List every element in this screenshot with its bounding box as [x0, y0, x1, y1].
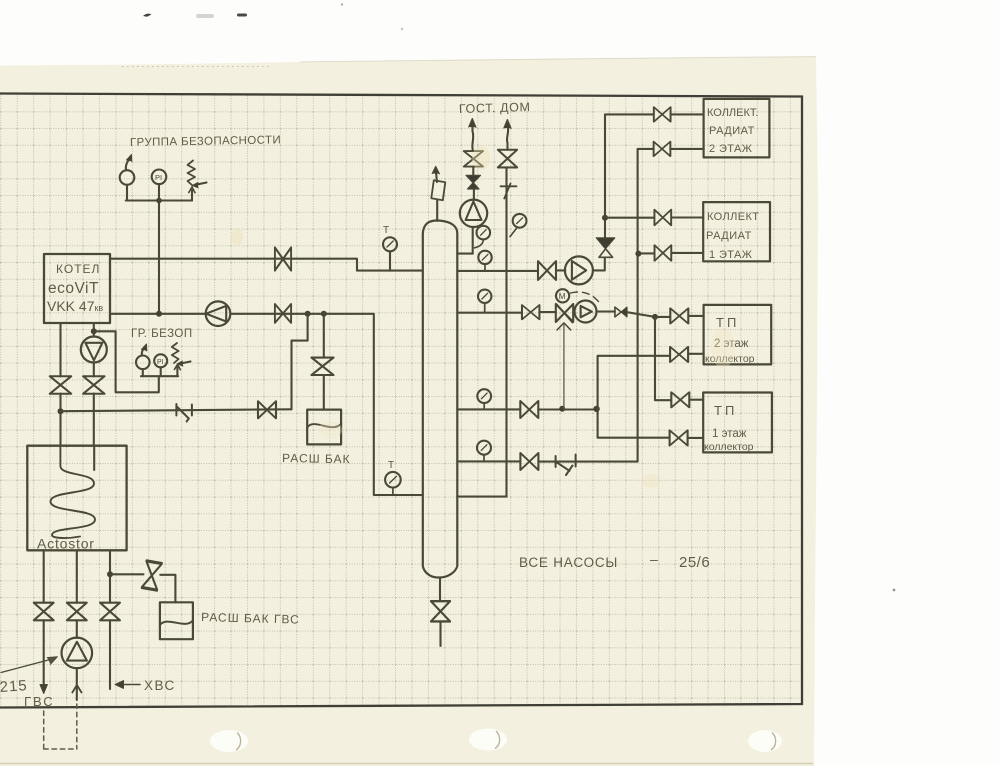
- junction node E: [58, 408, 64, 414]
- drain fitting D2: [556, 455, 576, 476]
- Actostor heating coil: [51, 446, 96, 538]
- radiator collector 1st floor box: [703, 202, 770, 261]
- stain 3: [711, 328, 735, 368]
- valve V24: [670, 430, 688, 445]
- valve V22: [520, 401, 538, 418]
- svg-text:–: –: [650, 551, 658, 567]
- valve V13: [498, 150, 517, 168]
- svg-text:коллектор: коллектор: [704, 441, 754, 453]
- pipe TP1 supply riser: [655, 317, 703, 400]
- svg-text:PI: PI: [155, 173, 162, 182]
- mixing valve M1: [556, 304, 573, 330]
- gauge T1: [383, 237, 397, 270]
- valve V4: [258, 401, 276, 418]
- check valve CH2: [596, 238, 615, 257]
- svg-text:КОТЕЛ: КОТЕЛ: [56, 262, 100, 276]
- leader arrow for 215: [1, 657, 58, 673]
- pipe bypass from node A to return manifold: [292, 314, 308, 410]
- pipe cold water feed: [109, 550, 111, 689]
- svg-text:ТП: ТП: [716, 315, 739, 330]
- margin dot: [893, 589, 896, 592]
- svg-text:25/6: 25/6: [679, 554, 710, 571]
- gauge PI2: [154, 354, 167, 376]
- gauge PI1: [152, 170, 167, 201]
- valve V12: [464, 151, 483, 166]
- svg-text:РАСШ БАК: РАСШ БАК: [282, 451, 351, 466]
- paper sheet: [0, 57, 818, 766]
- radiator supply riser: [605, 114, 704, 237]
- pipe separator to house-supply riser: [457, 253, 472, 255]
- stain 1: [472, 146, 490, 170]
- arrow from house return: [504, 120, 511, 129]
- valve V1: [275, 247, 291, 270]
- pump P1: [206, 301, 231, 326]
- valve V11: [431, 601, 450, 621]
- svg-text:М: М: [559, 292, 566, 301]
- paper bottom shadow: [0, 763, 813, 765]
- valve V21: [671, 392, 689, 407]
- svg-text:ТП: ТП: [714, 403, 737, 418]
- svg-text:РАСШ БАК ГВС: РАСШ БАК ГВС: [201, 610, 300, 627]
- pipe to DHW expansion tank: [110, 574, 175, 602]
- arrow KHVS: [115, 681, 140, 689]
- svg-text:2 ЭТАЖ: 2 ЭТАЖ: [709, 143, 752, 155]
- TP collector 1st floor box: [703, 393, 772, 453]
- junction node B: [321, 311, 327, 317]
- valve V19: [522, 305, 539, 319]
- pump P4: [460, 200, 487, 227]
- gauge below pump P4: [475, 226, 491, 248]
- TP collector 2nd floor box: [704, 305, 772, 365]
- paper top edge line: [300, 57, 816, 62]
- drain fitting D1: [176, 404, 192, 422]
- heating supply pipe right: [457, 257, 605, 271]
- air vent on separator dome: [431, 167, 445, 221]
- TP return riser: [598, 354, 704, 438]
- junction node L: [593, 406, 599, 412]
- check valve CH1: [466, 175, 481, 189]
- valve V15: [654, 107, 671, 122]
- mini safety header: [141, 375, 178, 377]
- hole punch right: [748, 730, 782, 752]
- actuator dashed link: [571, 292, 601, 304]
- scan mark 2: [237, 14, 247, 17]
- paper top edge speckles: [122, 66, 272, 68]
- pump P3: [62, 638, 93, 669]
- pipe boiler supply to separator: [110, 259, 423, 271]
- pump P6: [575, 301, 597, 323]
- pipe radiator supply 1st floor: [605, 216, 703, 218]
- Actostor tank box: [27, 446, 126, 551]
- valve V3: [311, 358, 333, 375]
- junction node H: [602, 215, 608, 221]
- stain 4: [642, 474, 660, 488]
- floor-heating return pipe: [457, 408, 597, 410]
- label radiator 2fl: [707, 107, 758, 155]
- valve V25: [520, 453, 538, 470]
- valve V17: [654, 142, 671, 157]
- pipe expansion tank branch from node B: [323, 314, 325, 410]
- svg-text:ecoViT: ecoViT: [48, 280, 99, 297]
- paper grid: [0, 96, 802, 707]
- svg-text:ГОСТ. ДОМ: ГОСТ. ДОМ: [459, 100, 531, 116]
- pipe DHW recirculation: [76, 550, 78, 700]
- safety valve SV2: [172, 343, 191, 376]
- scan smudge: [196, 14, 214, 18]
- label TP 2fl: [705, 315, 755, 365]
- pump P5: [565, 256, 593, 284]
- Actostor coil return leg: [93, 446, 95, 470]
- separator drain pipe: [439, 578, 442, 647]
- svg-text:1 этаж: 1 этаж: [712, 428, 747, 440]
- valve V16: [654, 210, 671, 226]
- gauge G4: [478, 290, 491, 313]
- pipe TP2 supply: [655, 316, 704, 317]
- svg-text:ХВС: ХВС: [144, 678, 176, 693]
- pipe DHW hot outlet: [43, 550, 45, 690]
- valve V9: [100, 603, 120, 621]
- hole punch middle: [469, 729, 507, 751]
- thermometer T2: [385, 472, 401, 495]
- pump P2: [81, 337, 107, 363]
- arrow to house supply: [469, 119, 476, 128]
- svg-text:PI: PI: [157, 359, 164, 366]
- label TP 1fl: [704, 403, 754, 453]
- air vent AV1: [120, 155, 135, 201]
- safety group riser: [158, 201, 160, 314]
- svg-text:КОЛЛЕКТ.: КОЛЛЕКТ.: [707, 107, 758, 119]
- valve V10 tilted: [142, 561, 162, 590]
- label radiator 1fl: [706, 211, 759, 261]
- drawing frame border: [0, 94, 802, 708]
- stain 2: [231, 228, 243, 246]
- valve V20: [670, 308, 688, 323]
- check valve CH3: [615, 307, 627, 317]
- junction node D: [156, 198, 162, 204]
- valve V18: [655, 245, 672, 261]
- arrow recirculation up: [72, 685, 81, 693]
- house supply riser: [472, 125, 474, 254]
- hole punch left: [210, 730, 248, 752]
- svg-text:РАДИАТ: РАДИАТ: [706, 230, 752, 242]
- return manifold pipe: [61, 409, 292, 411]
- scan mark 1: [143, 14, 152, 17]
- junction node G: [107, 571, 113, 577]
- tiny speck b: [401, 28, 403, 30]
- gauge on return riser: [510, 214, 526, 237]
- junction node I: [635, 251, 641, 257]
- svg-text:Actostor: Actostor: [37, 536, 95, 552]
- valve V6: [83, 376, 104, 393]
- svg-text:Т: Т: [383, 225, 389, 236]
- air vent AV2: [136, 344, 150, 376]
- valve V14: [538, 261, 556, 280]
- radiator return riser: [638, 149, 704, 461]
- svg-text:ГВС: ГВС: [24, 694, 55, 709]
- junction node C: [156, 311, 162, 317]
- safety valve SV1: [188, 161, 207, 201]
- gauge G3: [478, 251, 491, 271]
- svg-text:ВСЕ НАСОСЫ: ВСЕ НАСОСЫ: [519, 555, 618, 570]
- actuator M circle: [556, 289, 569, 302]
- svg-text:1 ЭТАЖ: 1 ЭТАЖ: [709, 249, 752, 261]
- svg-text:КОЛЛЕКТ: КОЛЛЕКТ: [707, 211, 759, 223]
- valve V5: [50, 376, 71, 393]
- junction node A: [305, 311, 311, 317]
- svg-text:ГР. БЕЗОП: ГР. БЕЗОП: [131, 328, 193, 340]
- valve V23: [670, 347, 688, 362]
- drain return pipe: [457, 460, 637, 462]
- gauge G5: [477, 389, 491, 409]
- svg-text:Т: Т: [388, 460, 394, 471]
- junction node J: [652, 314, 658, 320]
- tiny speck a: [341, 3, 343, 5]
- svg-text:РАДИАТ: РАДИАТ: [709, 125, 755, 137]
- balancing fitting on return riser: [501, 184, 517, 199]
- junction node F: [91, 328, 97, 334]
- boiler K1 box: [44, 254, 110, 323]
- pipe boiler DHW-left drop: [59, 323, 61, 446]
- floor-heating supply pipe: [457, 312, 655, 317]
- junction node K: [559, 406, 565, 412]
- actuator sensing line: [563, 324, 565, 409]
- mini safety branch pipe: [94, 331, 159, 392]
- expansion tank 1: [307, 410, 341, 445]
- pipe house return into separator: [457, 496, 506, 498]
- pipe radiator return 1st floor: [638, 252, 703, 255]
- safety group header: [126, 199, 192, 201]
- pipe boiler return line: [110, 314, 423, 495]
- dashed recirculation loop: [44, 704, 77, 749]
- radiator collector 2nd floor box: [704, 99, 770, 157]
- house return riser: [507, 126, 509, 497]
- stain 5: [318, 421, 342, 439]
- DHW expansion tank: [160, 602, 193, 639]
- valve V2: [275, 304, 291, 323]
- hydraulic separator column: [423, 220, 458, 577]
- valve V7: [34, 603, 54, 621]
- pipe boiler DHW-right drop: [93, 323, 95, 446]
- valve V8: [67, 603, 87, 621]
- arrow GVS down: [40, 685, 47, 694]
- gauge G6: [477, 441, 491, 462]
